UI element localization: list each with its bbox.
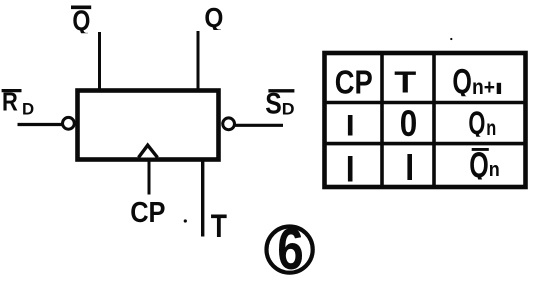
table cell row3 Qbar-n: [469, 145, 500, 186]
table cell row3 T = 1: [407, 154, 412, 180]
table cell row2 Qn: [468, 105, 496, 141]
table row line 2: [325, 142, 526, 146]
wire SD input: [235, 124, 284, 127]
wire RD input: [18, 123, 63, 126]
table header Qn+1: [452, 62, 499, 101]
label RD (R-bar sub D): [2, 87, 35, 119]
table column line 2: [432, 53, 436, 187]
wire CP input: [148, 160, 151, 195]
svg-text:Q: Q: [468, 105, 485, 141]
svg-text:T: T: [394, 65, 416, 100]
table column line 1: [380, 53, 384, 187]
svg-text:D: D: [22, 100, 34, 119]
svg-text:Q: Q: [204, 2, 223, 33]
stray scan dot: [184, 219, 187, 222]
wire T input: [201, 160, 204, 237]
flip-flop body U1: [78, 91, 219, 160]
stray scan speck above table: [450, 38, 452, 40]
inverting bubble on SD input: [223, 118, 235, 130]
svg-text:0: 0: [400, 103, 418, 144]
svg-text:CP: CP: [130, 197, 165, 229]
label SD (S-bar sub D): [265, 88, 294, 121]
table cell row3 CP = 1: [348, 156, 353, 182]
table cell row2 CP = 1: [348, 115, 353, 136]
svg-text:n: n: [486, 117, 496, 140]
wire Q output: [197, 31, 200, 90]
svg-text:Q: Q: [72, 5, 90, 37]
svg-text:T: T: [211, 208, 228, 244]
label Qbar: [71, 5, 91, 37]
figure number 6 circle: [267, 227, 313, 273]
svg-text:CP: CP: [335, 65, 373, 102]
clock edge-trigger triangle: [139, 145, 158, 157]
svg-text:n+: n+: [472, 76, 495, 99]
inverting bubble on RD input: [63, 117, 75, 129]
svg-text:6: 6: [277, 217, 304, 282]
svg-text:n: n: [489, 159, 500, 181]
wire Qbar output: [98, 32, 101, 90]
svg-text:Q: Q: [452, 62, 472, 101]
svg-text:D: D: [282, 100, 295, 119]
table row line 1: [325, 101, 526, 105]
truth table frame: [325, 53, 526, 187]
